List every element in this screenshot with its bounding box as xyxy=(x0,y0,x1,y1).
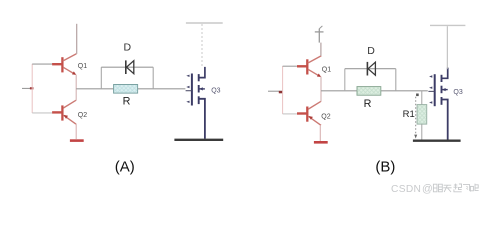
wire: input lead B xyxy=(268,90,283,92)
svg-text:R: R xyxy=(123,95,131,107)
svg-text:R: R xyxy=(364,98,372,110)
transistor Q1 (npn) B xyxy=(297,56,321,77)
svg-text:(B): (B) xyxy=(375,159,395,176)
明 xyxy=(433,184,442,192)
wire: input lead A xyxy=(22,87,32,89)
svg-text:R1: R1 xyxy=(403,109,415,120)
transistor Q1 (npn) xyxy=(52,54,76,75)
ground bar B xyxy=(413,139,461,141)
top rail B xyxy=(430,24,465,26)
diode D (A) xyxy=(126,60,134,74)
svg-text:D: D xyxy=(367,45,375,57)
junction dot R1 (B) xyxy=(416,94,419,97)
wire: loop left vertical A xyxy=(100,67,102,89)
wire: loop right vertical A xyxy=(152,67,154,89)
wire: Q1 collector vertical A xyxy=(76,24,78,54)
svg-text:Q1: Q1 xyxy=(78,63,87,70)
起 xyxy=(454,184,462,192)
resistor R (A) xyxy=(114,85,138,94)
svg-text:Q1: Q1 xyxy=(322,66,331,73)
svg-text:Q3: Q3 xyxy=(211,88,220,95)
wire: diode top wire A xyxy=(101,66,153,68)
svg-text:(A): (A) xyxy=(115,159,135,176)
node: input terminal tick A xyxy=(30,87,34,89)
wire: Q2 emitter vertical B xyxy=(319,125,321,141)
wire: to Q1 base A xyxy=(32,63,52,65)
svg-text:CSDN: CSDN xyxy=(391,184,421,195)
天 xyxy=(443,185,451,192)
transistor Q2 (pnp) B xyxy=(297,101,321,125)
negative rail bar A xyxy=(70,139,84,142)
mosfet Q3 (B) xyxy=(428,68,447,140)
negative rail bar B xyxy=(314,141,328,144)
supply T symbol B xyxy=(315,26,324,43)
svg-text:Q3: Q3 xyxy=(453,89,462,96)
wire: drain vertical B xyxy=(446,26,448,69)
svg-text:Q2: Q2 xyxy=(321,114,330,121)
wire: output node to gate A xyxy=(76,88,185,90)
wire: output node to gate B xyxy=(321,90,428,92)
diode D (B) xyxy=(367,62,375,76)
top rail A xyxy=(186,22,223,24)
wire: to Q2 base B xyxy=(283,113,297,115)
svg-text:Q2: Q2 xyxy=(78,112,87,119)
mosfet Q3 (A) xyxy=(186,67,205,139)
wire: to Q1 base B xyxy=(283,65,297,67)
wire: input vertical B xyxy=(282,66,284,114)
wire: loop right vertical B xyxy=(395,69,397,91)
node: input terminal tick B xyxy=(279,91,283,93)
wire: Q1 collector vertical B xyxy=(320,43,322,56)
吧 xyxy=(470,184,478,191)
watermark hanzi (drawn strokes) xyxy=(433,184,478,192)
飞 xyxy=(463,185,471,192)
wire: mid junction vertical A xyxy=(75,75,77,101)
wire: diode top wire B xyxy=(345,68,396,70)
wire: mid junction vertical B xyxy=(320,77,322,102)
svg-text:@: @ xyxy=(422,183,433,195)
wire: Q2 emitter vertical A xyxy=(75,124,77,139)
transistor Q2 (pnp) xyxy=(52,100,76,124)
dotted current arrow (B) xyxy=(415,97,417,134)
wire: dotted drain link A xyxy=(201,24,203,66)
wire: to Q2 base A xyxy=(32,112,52,114)
ground bar A xyxy=(174,139,223,141)
wire: loop left vertical B xyxy=(344,69,346,91)
watermark CSDN xyxy=(391,183,433,195)
resistor R1 (B) xyxy=(417,91,427,140)
wire: input vertical A xyxy=(31,64,33,113)
svg-text:D: D xyxy=(124,42,132,54)
resistor R (B) xyxy=(357,87,381,96)
